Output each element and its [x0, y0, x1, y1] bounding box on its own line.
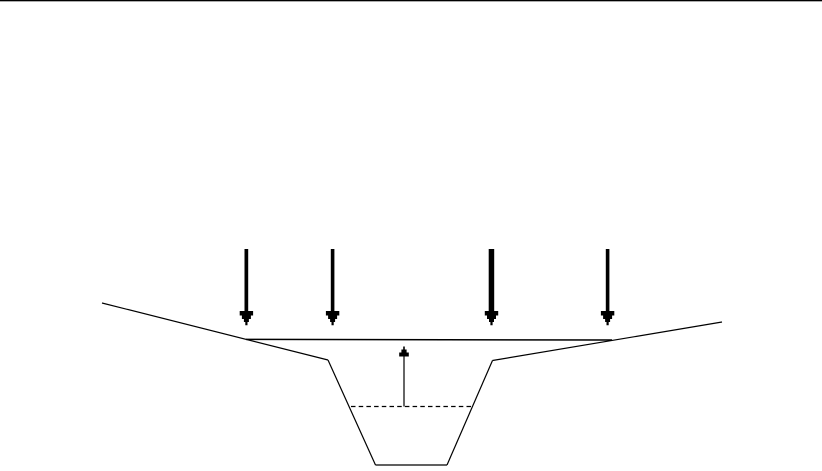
arrow up (flow depth)	[399, 347, 409, 407]
wire: channel left wall	[328, 360, 376, 465]
wire: dashed water level	[351, 406, 474, 408]
wire: channel bottom	[376, 464, 448, 466]
top border rule	[0, 0, 822, 1]
arrow down 4	[601, 249, 614, 325]
arrow down 1	[240, 249, 253, 325]
wire: left ground slope	[102, 303, 328, 360]
wire: channel right wall	[447, 361, 493, 466]
arrow down 2	[326, 249, 339, 325]
wire: right bank slope	[493, 322, 723, 361]
arrow down 3	[485, 249, 498, 325]
wire: water surface line	[246, 338, 612, 341]
